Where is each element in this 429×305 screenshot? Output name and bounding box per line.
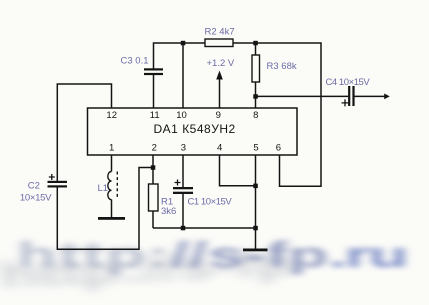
svg-text:6: 6	[276, 143, 281, 154]
svg-text:C2: C2	[28, 181, 40, 192]
svg-text:C3 0.1: C3 0.1	[121, 56, 149, 67]
svg-text:1: 1	[109, 143, 114, 154]
svg-text:R2 4k7: R2 4k7	[205, 27, 235, 38]
svg-text:8: 8	[253, 110, 258, 121]
svg-text:11: 11	[150, 110, 160, 121]
svg-text:10×15V: 10×15V	[20, 193, 52, 204]
svg-text:2: 2	[152, 143, 157, 154]
svg-text:L1: L1	[98, 183, 109, 194]
svg-text:R3 68k: R3 68k	[267, 61, 297, 72]
svg-text:3: 3	[181, 143, 186, 154]
svg-text:4: 4	[217, 143, 222, 154]
svg-text:9: 9	[216, 110, 221, 121]
svg-text:10: 10	[176, 110, 187, 121]
svg-text:12: 12	[106, 110, 117, 121]
svg-text:DA1 К548УН2: DA1 К548УН2	[154, 122, 236, 136]
svg-text:C4 10×15V: C4 10×15V	[326, 77, 371, 88]
svg-text:3k6: 3k6	[161, 206, 176, 217]
svg-text:C1 10×15V: C1 10×15V	[188, 197, 233, 208]
svg-text:+1.2 V: +1.2 V	[207, 58, 235, 69]
svg-text:5: 5	[253, 143, 258, 154]
